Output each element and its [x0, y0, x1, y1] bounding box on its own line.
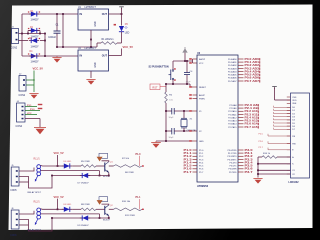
junction U1 gnd stub	[90, 39, 92, 41]
wire net stub 1	[139, 156, 141, 166]
wire contrast left	[258, 156, 262, 158]
wire RST box to net	[160, 86, 166, 88]
LED D8	[62, 207, 72, 212]
pin mark right 2	[142, 209, 144, 210]
resistor R7 10k	[114, 165, 143, 168]
svg-text:ALE/P: ALE/P	[199, 94, 206, 97]
svg-text:P3.0: P3.0	[30, 109, 35, 111]
pin dots S2	[174, 68, 176, 80]
pin stub LCD D3	[287, 116, 291, 118]
svg-text:P2.0/A8: P2.0/A8	[229, 104, 237, 107]
wire LCD data D6	[274, 125, 291, 127]
svg-text:P2.2/A10: P2.2/A10	[228, 110, 237, 113]
wire R1 to ground rail	[96, 43, 98, 47]
junction C1 bottom on gnd rail	[56, 46, 58, 48]
svg-text:P2.6/A14: P2.6/A14	[228, 123, 237, 126]
LCD module LCD1 box	[291, 93, 310, 178]
wire C1 top lead	[56, 14, 58, 31]
pin stub P0.3	[238, 67, 244, 69]
wire VDD feed	[275, 99, 291, 101]
wire collector to flag Q2	[102, 203, 109, 206]
wire C2 to XTAL1 pin	[174, 110, 192, 112]
wire CON4 pin1 green	[25, 106, 37, 108]
svg-text:P3.7/RD: P3.7/RD	[229, 172, 237, 174]
transistor Q1 BC547	[105, 162, 109, 173]
ground CON4	[34, 128, 46, 135]
wire bottom negative rail	[22, 55, 78, 57]
wire CON4 pin4	[25, 118, 40, 120]
junction U1 gnd on rail	[90, 46, 92, 48]
svg-text:R8 220R: R8 220R	[81, 204, 90, 206]
pin dots D2	[28, 28, 40, 29]
net tail P0.7	[258, 80, 261, 82]
pin stub P2.5	[238, 120, 244, 122]
wire bridge right vertical	[44, 34, 46, 57]
pin marks CON2	[23, 79, 25, 86]
pin stub P2.1	[238, 107, 244, 109]
svg-text:30pF: 30pF	[169, 117, 175, 119]
connector CON4 box	[17, 103, 26, 122]
svg-text:P3.1: P3.1	[27, 105, 32, 107]
svg-text:S2 PUSHBUTTON: S2 PUSHBUTTON	[149, 66, 169, 69]
wire LCD data D4	[274, 119, 291, 121]
pin dots D1	[28, 11, 40, 12]
junction D2 leg on AC1	[27, 33, 29, 35]
pin stub P3.4	[238, 162, 244, 164]
pin stub P1.7	[193, 171, 198, 173]
pin stub P2.3	[238, 113, 244, 115]
svg-text:R14 1k: R14 1k	[263, 153, 271, 155]
pin stub P1.4	[193, 162, 198, 164]
pin stub LCD E	[287, 149, 291, 151]
svg-text:P0.4/AD4: P0.4/AD4	[228, 70, 237, 73]
net tail P0.0	[258, 58, 261, 60]
pin stub RESET	[193, 86, 198, 88]
svg-text:P2.7 A15: P2.7 A15	[245, 125, 258, 129]
svg-text:GND: GND	[199, 141, 204, 143]
svg-text:PSEN: PSEN	[199, 98, 205, 100]
pin stub LCD A	[287, 156, 291, 158]
capacitor C4 reset 10uF	[184, 61, 190, 84]
wire U2 GND stub	[90, 71, 92, 78]
wire LCD data D2	[274, 113, 291, 115]
svg-text:RELAY SPDT: RELAY SPDT	[28, 229, 42, 232]
wire R1 right lead	[117, 42, 122, 44]
pin mark right 1	[142, 165, 144, 166]
svg-text:P3.0/RXD: P3.0/RXD	[228, 150, 237, 152]
svg-text:P3.3/INT1: P3.3/INT1	[227, 159, 237, 161]
pin stub VCC pin40	[193, 62, 198, 64]
pin number 30	[189, 94, 192, 96]
junction crystal bottom	[183, 130, 185, 132]
pin stub P1.1	[193, 152, 198, 154]
svg-text:LM7805CT: LM7805CT	[85, 7, 97, 9]
wire VCC pin corner	[192, 61, 194, 63]
wire xtal bus branch bottom	[166, 130, 172, 132]
junction cap bottom	[186, 83, 188, 85]
svg-text:RELAY SPDT: RELAY SPDT	[28, 191, 42, 194]
wire coil second terminal 2	[41, 213, 100, 215]
svg-text:P2.4/A12: P2.4/A12	[228, 116, 237, 119]
svg-text:P3.4/T0: P3.4/T0	[229, 162, 237, 164]
pin stub P1.3	[193, 158, 198, 160]
capacitor C2 30pF	[172, 108, 174, 114]
svg-text:CON2: CON2	[11, 47, 18, 50]
pin dot D5	[114, 24, 116, 26]
pin marks CON1	[16, 32, 18, 40]
transistor Q2 BC547	[105, 205, 109, 216]
relay RL2/1 coil	[37, 208, 41, 219]
ground LCD	[253, 179, 262, 184]
net tail P0.2	[258, 64, 261, 66]
connector CON2 box	[19, 76, 26, 92]
wire D2 left leg	[27, 31, 29, 34]
wire C1 bottom lead	[56, 33, 58, 47]
pin number 9	[189, 86, 192, 88]
net tail P2.3	[257, 114, 260, 116]
pin stub PSEN	[193, 98, 198, 100]
wire net stub 2	[139, 199, 141, 209]
svg-text:D7 1N4007: D7 1N4007	[78, 183, 90, 185]
wire coil top to vcc 1	[40, 164, 57, 167]
svg-text:P3.5/T1: P3.5/T1	[229, 166, 237, 168]
pin stub LCD D1	[287, 109, 291, 111]
push button S2	[169, 61, 174, 84]
pin stub P2.0	[238, 104, 244, 106]
power symbol VCC top	[119, 7, 124, 10]
junction coil2 bottom 1	[99, 175, 101, 177]
net tail P2.1	[257, 107, 260, 109]
net hook D5	[273, 121, 275, 123]
svg-text:VCC_5V: VCC_5V	[123, 45, 134, 49]
junction CON2 vcc	[33, 79, 34, 80]
svg-text:P3.7: P3.7	[245, 170, 254, 174]
wire C3 to XTAL2 pin	[174, 130, 192, 132]
wire LED to R8	[72, 208, 81, 210]
pin stub P3.1	[238, 152, 244, 154]
wire CON4 pin3 green	[25, 114, 37, 116]
junction emitter bottom Q2	[108, 217, 110, 219]
svg-text:VSS: VSS	[292, 97, 297, 99]
wire vcc stub relay 1	[57, 155, 59, 166]
pin marks CON relay 1	[16, 170, 18, 183]
wire flyback row 2	[52, 217, 109, 219]
net end mark CON4 b	[38, 108, 43, 109]
net tail P0.4	[258, 71, 261, 73]
net tail P2.5	[257, 120, 260, 122]
net end mark CON4 a	[38, 104, 43, 105]
junction cap top	[186, 60, 188, 62]
pin stub P0.1	[238, 61, 244, 63]
wire CON2 pin2 green	[26, 84, 34, 86]
voltage regulator U2 box	[78, 50, 109, 71]
svg-text:P2.5/A13: P2.5/A13	[228, 120, 237, 123]
svg-text:P0.7 AD7: P0.7 AD7	[245, 79, 260, 83]
junction D2 right leg on AC1	[39, 33, 41, 35]
wire top positive rail	[22, 13, 78, 15]
svg-text:P2.3/A11: P2.3/A11	[228, 113, 237, 116]
svg-text:R10 10k: R10 10k	[122, 201, 131, 203]
wire LCD ctrl P2.6	[268, 141, 291, 143]
svg-text:P3.6/WR: P3.6/WR	[228, 169, 237, 171]
wire flyback row 1	[52, 175, 109, 177]
wire LCD data D0	[274, 106, 291, 108]
wire EA corner	[192, 59, 194, 61]
ground MCU	[151, 143, 161, 148]
wire VCC stem to VDD	[274, 88, 276, 101]
svg-text:CON5: CON5	[10, 190, 17, 192]
wire conn pin2 2	[19, 218, 52, 231]
svg-text:D9 1N4007: D9 1N4007	[78, 225, 90, 227]
wire base chain 2	[109, 208, 114, 210]
net tail P0.6	[258, 77, 261, 79]
wire LCD ctrl P2.5	[268, 134, 291, 136]
svg-text:RST: RST	[152, 85, 158, 89]
svg-text:1N4007: 1N4007	[31, 46, 40, 48]
relay contact arm 1	[35, 175, 38, 181]
svg-text:R7 10k: R7 10k	[122, 158, 130, 160]
pin dots D3	[28, 38, 40, 39]
wire LED to R5	[72, 165, 81, 167]
svg-text:P3.1/TXD: P3.1/TXD	[228, 153, 237, 155]
pin stub P2.7	[238, 126, 244, 128]
pin stub LCD VSS	[287, 96, 291, 98]
pin stub GND	[193, 140, 198, 142]
wire CON4 pin2 green	[25, 110, 40, 112]
wire coil top to vcc 2	[40, 208, 57, 211]
pin number 29	[189, 98, 192, 100]
junction coil2 bottom 2	[99, 217, 101, 219]
svg-text:RW: RW	[292, 143, 295, 145]
pin stub EA/VPP	[193, 58, 198, 60]
wire D2 right leg	[39, 31, 41, 34]
net tail P2.2	[257, 110, 260, 112]
connector CON1 (AC input)	[12, 29, 19, 44]
net hook D2	[273, 112, 275, 114]
power symbol VCC (LCD)	[272, 87, 277, 90]
svg-text:R11 220R: R11 220R	[125, 215, 135, 217]
wire conn pin3 2	[19, 224, 29, 226]
pin stub LCD D7	[287, 128, 291, 130]
svg-text:IN: IN	[80, 55, 83, 58]
wire CON2 vertical green	[33, 71, 35, 93]
net tail P2.7	[257, 126, 260, 128]
svg-text:AT89S52: AT89S52	[197, 184, 209, 188]
wire CON2 pin1 green	[26, 79, 34, 81]
wire conn pin2 1	[19, 176, 52, 189]
net box collector Q2	[99, 197, 108, 202]
svg-text:P1.1: P1.1	[136, 196, 142, 199]
svg-text:P0.0/AD0: P0.0/AD0	[228, 58, 237, 61]
resistor R8 220R	[81, 208, 96, 211]
svg-text:R1 220ohm: R1 220ohm	[102, 39, 114, 41]
svg-text:D6 LED: D6 LED	[64, 161, 72, 163]
net tail P0.3	[258, 68, 261, 70]
wire R1 left lead	[97, 42, 101, 44]
crystal X1	[181, 111, 187, 131]
svg-text:R5 220R: R5 220R	[81, 161, 90, 163]
pin stub P1.6	[193, 168, 198, 170]
wire LCD data D5	[274, 122, 291, 124]
svg-text:P0.7/AD7: P0.7/AD7	[228, 80, 237, 83]
wire reset to pin	[190, 84, 193, 87]
net hook D0	[273, 106, 275, 108]
pin marks CON4	[22, 106, 24, 120]
junction bridge right bottom	[44, 55, 46, 57]
capacitor C3 30pF	[172, 128, 174, 134]
svg-text:OUT: OUT	[102, 55, 108, 58]
wire U2 OUT	[109, 55, 122, 57]
net hook D1	[273, 109, 275, 111]
wire CON1 pin1 to bridge node AC1	[19, 33, 46, 35]
junction vcc arrow	[184, 60, 186, 62]
ground U2	[86, 80, 95, 85]
svg-text:P0.5/AD5: P0.5/AD5	[228, 74, 237, 77]
wire conn pin3 1	[19, 181, 29, 183]
svg-text:OUT: OUT	[102, 13, 108, 16]
net hook D7	[273, 128, 275, 130]
wire D5 to R1	[121, 32, 123, 43]
pin stub P1.5	[193, 165, 198, 167]
pin stub LCD D5	[287, 122, 291, 124]
svg-text:RL1/1: RL1/1	[34, 158, 41, 160]
svg-text:LM7905CT: LM7905CT	[85, 48, 97, 50]
net box collector Q1	[99, 153, 108, 158]
net tail P0.5	[258, 74, 261, 76]
wire base chain 1	[109, 165, 114, 167]
wire AC2 rail right part	[40, 40, 45, 42]
diode D4 1N4007	[29, 53, 39, 58]
pin stub XTAL2	[193, 130, 198, 132]
junction emitter bottom Q1	[108, 175, 110, 177]
wire VCC to D5	[121, 14, 123, 26]
svg-text:1N4007: 1N4007	[31, 20, 40, 22]
pin stub P2.4	[238, 117, 244, 119]
wire LCD data D7	[274, 128, 291, 130]
svg-text:IN: IN	[80, 13, 83, 16]
ground CON2	[29, 94, 38, 99]
flyback diode D9 1N4007	[80, 215, 90, 220]
ground stem MCU	[155, 141, 157, 143]
svg-text:R6 220R: R6 220R	[125, 172, 134, 174]
svg-text:CRYSTAL: CRYSTAL	[187, 129, 198, 132]
relay RL1/1 coil	[37, 165, 41, 176]
resistor R2 10k	[165, 92, 168, 103]
svg-text:P1.0: P1.0	[136, 153, 142, 156]
svg-text:RESET: RESET	[199, 87, 207, 89]
svg-text:VEE: VEE	[292, 103, 297, 105]
net tail P2.0	[257, 104, 260, 106]
junction vcc relay 2	[57, 208, 59, 210]
pin stub LCD D0	[287, 106, 291, 108]
wire D2 row	[28, 30, 40, 32]
pin stub LCD D6	[287, 125, 291, 127]
junction x63 on top rail	[62, 13, 64, 15]
pin stub LCD D4	[287, 119, 291, 121]
junction lcd bus c	[257, 173, 259, 175]
junction xtal bus top	[165, 110, 167, 112]
pin number 40	[189, 62, 192, 64]
net tail P2.6	[257, 123, 260, 125]
diode D1 1N4007	[29, 11, 39, 16]
pin stub P2.2	[238, 110, 244, 112]
pin stub P1.0	[193, 149, 198, 151]
svg-text:P0.2/AD2: P0.2/AD2	[228, 64, 237, 67]
pin stub P3.3	[238, 158, 244, 160]
pin stub P3.0	[238, 149, 244, 151]
pin stub P3.7	[238, 171, 244, 173]
connector relay output 2 box	[11, 210, 19, 229]
junction RST top	[165, 83, 167, 85]
net hook D6	[273, 125, 275, 127]
pin stub LCD RW	[287, 143, 291, 145]
junction xtal bus bottom	[165, 130, 167, 132]
pin stub P0.7	[238, 80, 244, 82]
wire vcc to LED 1	[58, 165, 64, 167]
wire R2 bottom to gnd bus	[165, 103, 167, 141]
wire CON1 pin2 to bridge node AC2	[19, 40, 29, 42]
svg-text:EA/VP: EA/VP	[199, 58, 206, 61]
svg-text:D8 LED: D8 LED	[64, 204, 72, 206]
ground stem power section	[56, 56, 58, 58]
wire CON4 gnd vertical	[39, 119, 41, 128]
pin stub P3.6	[238, 168, 244, 170]
power arrow collector Q1	[97, 157, 103, 162]
svg-text:VCC_5V: VCC_5V	[54, 151, 64, 155]
wire vcc stub relay 2	[57, 199, 59, 210]
pin number 19	[189, 110, 192, 112]
power arrow collector Q2	[97, 200, 103, 205]
resistor R1 220R	[101, 42, 117, 45]
wire LCD data D1	[274, 109, 291, 111]
junction loop top 2	[51, 217, 53, 219]
wire VCC symbol stem	[121, 8, 123, 14]
wire conn pin1 2	[19, 211, 34, 214]
junction vcc relay 1	[57, 165, 59, 167]
pin stub LCD VDD	[287, 99, 291, 101]
pin number 20	[189, 140, 192, 142]
svg-text:P2.7/A15: P2.7/A15	[228, 126, 237, 129]
svg-text:CON4: CON4	[16, 125, 23, 128]
wire LCD row V2	[258, 173, 291, 175]
svg-text:P1.7: P1.7	[184, 170, 193, 174]
svg-text:VDD: VDD	[292, 100, 297, 102]
svg-text:CON2: CON2	[19, 94, 26, 97]
wire U1 OUT to VCC node	[109, 13, 122, 15]
wire LCD ctrl P2.7	[268, 148, 291, 150]
svg-text:1000uF: 1000uF	[48, 37, 56, 39]
flyback diode D7 1N4007	[80, 173, 90, 178]
pin stub P0.0	[238, 58, 244, 60]
pin number 18	[189, 130, 192, 132]
junction AC1-bus	[21, 33, 23, 35]
pin stub P0.5	[238, 74, 244, 76]
svg-text:GND: GND	[95, 21, 97, 26]
wire LCD backlight K	[258, 163, 291, 165]
junction R2 gnd bus	[165, 140, 167, 142]
junction button bottom	[172, 83, 174, 85]
wire reset to R2	[165, 84, 167, 92]
capacitor C1 1000uF	[54, 31, 61, 33]
wire U1 GND stub	[90, 30, 92, 47]
junction VCC node	[121, 13, 123, 15]
pin stub LCD K	[287, 163, 291, 165]
wire LCD data D3	[274, 116, 291, 118]
pin stub LCD V2	[287, 173, 291, 175]
svg-text:P0.1/AD1: P0.1/AD1	[228, 61, 237, 64]
wire LCD row V1	[258, 169, 291, 171]
net hook D4	[273, 118, 275, 120]
